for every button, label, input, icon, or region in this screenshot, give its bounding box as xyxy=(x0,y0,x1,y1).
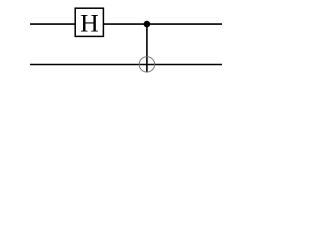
wire q1 xyxy=(30,64,222,66)
wire CNOT vertical xyxy=(146,24,148,72)
CNOT target circle xyxy=(139,57,154,72)
svg-text:H: H xyxy=(80,9,99,38)
wire q0 right segment xyxy=(104,23,222,25)
gate H box xyxy=(75,8,103,36)
CNOT control dot xyxy=(144,21,151,28)
wire q0 left segment xyxy=(30,23,75,25)
